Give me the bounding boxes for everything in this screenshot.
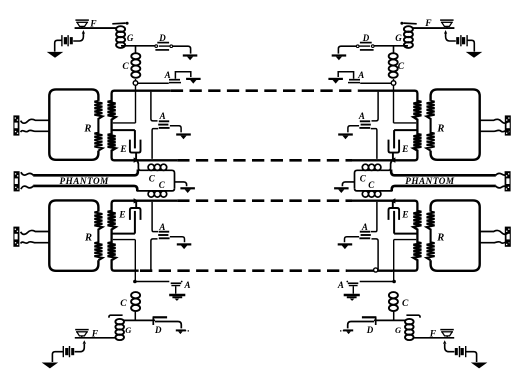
ground arrow at key A mid (right) bbox=[338, 135, 353, 140]
wire node to key A (bottom left) bbox=[136, 281, 169, 283]
wire G to receiver (bottom right) bbox=[413, 337, 454, 339]
phantom wire lower (right) bbox=[392, 186, 496, 191]
svg-text:R: R bbox=[84, 233, 92, 244]
key A (top left) bbox=[169, 72, 191, 83]
jack wires (bottom right) bbox=[480, 231, 508, 244]
svg-text:A: A bbox=[184, 280, 191, 290]
wire line3-winding-line4 (bottom left) bbox=[108, 201, 178, 271]
wire line4 to key A mid (bottom left) bbox=[151, 239, 158, 270]
dashed line conductor 4 bbox=[140, 269, 347, 272]
condenser C (bottom left) bbox=[131, 292, 140, 311]
jack (bottom right) bbox=[505, 227, 511, 247]
phantom jack (right) bbox=[505, 171, 511, 191]
key A (top right) bbox=[338, 72, 360, 83]
ground (key A bottom right) bbox=[344, 295, 360, 301]
key contact pad (bottom right) bbox=[406, 315, 420, 318]
svg-text:E: E bbox=[401, 211, 408, 221]
key A mid (right) bbox=[359, 121, 370, 128]
phantom ground tap wire (left) bbox=[175, 182, 187, 186]
dashed line conductor 3 bbox=[177, 199, 352, 202]
condenser C (top right) bbox=[389, 53, 398, 78]
svg-text:D: D bbox=[154, 325, 162, 335]
svg-text:C: C bbox=[122, 62, 129, 72]
winding tap to condenser E (top right) bbox=[394, 130, 417, 148]
wire key A mid to line2 (left) bbox=[152, 129, 158, 159]
svg-text:C: C bbox=[360, 173, 367, 183]
drop winding on box (top right) bbox=[427, 101, 435, 151]
svg-text:A: A bbox=[158, 222, 165, 232]
phantom wire upper (left) bbox=[33, 170, 138, 176]
receiver F (bottom right) bbox=[440, 330, 454, 338]
wire battery to line with arrow (top left) bbox=[73, 30, 85, 41]
ground (key A bottom left) bbox=[169, 295, 185, 301]
wire D to ground (top right) bbox=[338, 46, 356, 53]
ground wire at key A mid (bottom right) bbox=[345, 237, 360, 243]
svg-text:F: F bbox=[91, 330, 99, 340]
key A (bottom left) bbox=[171, 281, 183, 294]
wire key A mid to line3 (bottom right) bbox=[371, 202, 377, 232]
branch dot (bottom right) bbox=[392, 280, 396, 284]
impedance coil G (top left) bbox=[116, 26, 125, 48]
wire C to junction (bottom left) bbox=[134, 312, 136, 321]
svg-text:E: E bbox=[119, 145, 126, 155]
key contact pad (bottom left) bbox=[109, 315, 123, 318]
svg-text:A: A bbox=[358, 111, 365, 121]
ground wire at key A mid (bottom left) bbox=[170, 237, 185, 243]
wire receiver line (top right) bbox=[413, 27, 455, 29]
ground arrow at key A mid (left) bbox=[176, 135, 191, 140]
ground arrow at D (top right) bbox=[332, 56, 347, 61]
battery (top right) bbox=[456, 35, 467, 46]
wire key A mid to line2 (right) bbox=[371, 129, 377, 159]
wire line1-winding-line2 (top left) bbox=[108, 91, 178, 161]
svg-text:A: A bbox=[357, 70, 364, 80]
svg-text:C: C bbox=[398, 62, 405, 72]
key A (bottom right) bbox=[346, 281, 358, 294]
ground arrow (phantom right) bbox=[334, 188, 349, 193]
jack (top right) bbox=[505, 115, 511, 135]
svg-text:D: D bbox=[366, 325, 374, 335]
wire battery to ground (bottom right) bbox=[466, 352, 477, 362]
wire battery to ground (top left) bbox=[55, 40, 62, 51]
junction mark (pair1 phantom tap right) bbox=[390, 157, 396, 162]
phantom ground tap wire (right) bbox=[342, 182, 354, 186]
ground (top right battery) bbox=[466, 52, 483, 58]
svg-text:G: G bbox=[127, 33, 134, 43]
repeating coil box (bottom right) bbox=[431, 200, 480, 270]
condenser C (bottom right) bbox=[389, 292, 398, 311]
wire battery to ground (bottom left) bbox=[52, 352, 63, 362]
ground arrow at D (bottom left) bbox=[176, 330, 189, 334]
svg-text:A: A bbox=[361, 222, 368, 232]
drop winding on box (top left) bbox=[94, 101, 102, 151]
key D (bottom right) bbox=[362, 317, 377, 325]
svg-text:F: F bbox=[429, 330, 437, 340]
repeating coil box (bottom left) bbox=[49, 200, 98, 270]
svg-text:C: C bbox=[159, 180, 166, 190]
svg-text:F: F bbox=[424, 19, 432, 29]
key contact pad (top left) bbox=[112, 22, 128, 25]
svg-text:D: D bbox=[362, 33, 370, 43]
jack (top left) bbox=[13, 115, 19, 135]
svg-text:R: R bbox=[436, 233, 444, 244]
wire line4 to key A mid (bottom right) bbox=[372, 239, 379, 270]
impedance coil G (top right) bbox=[404, 26, 413, 48]
phantom jack hook lower (left) bbox=[21, 186, 34, 189]
phantom jack hook lower (right) bbox=[496, 186, 509, 189]
ground (top left battery) bbox=[47, 52, 64, 58]
svg-text:R: R bbox=[83, 124, 91, 135]
node on line 4 (right) bbox=[374, 268, 378, 272]
dashed line conductor 2 bbox=[177, 159, 352, 162]
impedance coil G (bottom left) bbox=[115, 319, 124, 340]
wire line to battery with arrow (bottom right) bbox=[443, 340, 454, 352]
wire battery to line with arrow (top right) bbox=[444, 30, 456, 41]
node (top left) bbox=[133, 81, 138, 86]
condenser E (top left) bbox=[130, 140, 141, 160]
ground wire at key A mid (right) bbox=[348, 126, 359, 133]
svg-text:A: A bbox=[164, 70, 171, 80]
key A mid (bottom right) bbox=[359, 232, 370, 239]
wire line4 solid segment (right) bbox=[347, 270, 392, 272]
key A mid (left) bbox=[158, 121, 169, 128]
wire node to key A (top right) bbox=[360, 82, 391, 84]
wire D to ground (top left) bbox=[173, 46, 191, 53]
ground arrow (phantom left) bbox=[180, 188, 195, 193]
ground arrow at key A (top right) bbox=[328, 79, 343, 84]
wire G-C link (top left) bbox=[135, 46, 137, 53]
drop winding on box (bottom right) bbox=[427, 212, 435, 261]
svg-text:F: F bbox=[89, 19, 97, 29]
wire node to key A (bottom right) bbox=[360, 281, 393, 283]
wire D to ground (bottom right) bbox=[348, 322, 374, 329]
phantom jack (left) bbox=[14, 171, 20, 191]
svg-text:G: G bbox=[395, 325, 402, 335]
svg-text:C: C bbox=[368, 180, 375, 190]
drop winding on box (bottom left) bbox=[94, 212, 102, 261]
wire C to node (top left) bbox=[135, 79, 137, 81]
wire line3-winding-line4 (bottom right) bbox=[352, 201, 422, 271]
jack wires (top right) bbox=[480, 119, 508, 132]
winding tap to condenser E (top left) bbox=[112, 130, 135, 148]
phantom coil 1 (right) bbox=[355, 164, 381, 173]
wire G to D (top left) bbox=[121, 45, 155, 47]
key A mid (bottom left) bbox=[158, 232, 169, 239]
phantom coil joining wire (left) bbox=[174, 173, 176, 188]
junction mark (pair2 phantom tap right) bbox=[390, 198, 396, 203]
condenser E (bottom left) bbox=[130, 201, 141, 234]
svg-text:C: C bbox=[149, 173, 156, 183]
wire junction to phantom coil 1 (right) bbox=[381, 161, 392, 170]
branch dot (bottom left) bbox=[133, 280, 137, 284]
wire G-C link (top right) bbox=[393, 46, 395, 53]
ground arrow at key A (top left) bbox=[186, 79, 201, 84]
condenser E (bottom right) bbox=[389, 201, 400, 234]
svg-text:R: R bbox=[436, 124, 444, 135]
impedance coil G (bottom right) bbox=[405, 319, 414, 340]
svg-text:PHANTOM: PHANTOM bbox=[60, 176, 110, 186]
svg-text:C: C bbox=[120, 299, 127, 309]
wire battery to ground (top right) bbox=[467, 40, 474, 51]
svg-text:E: E bbox=[401, 145, 408, 155]
ground arrow at key A mid (bottom right) bbox=[338, 244, 353, 249]
jack wires (bottom left) bbox=[21, 231, 49, 244]
jack wires (top left) bbox=[21, 119, 49, 132]
phantom wire upper (right) bbox=[391, 170, 496, 176]
ground arrow at key A mid (bottom left) bbox=[177, 244, 192, 249]
junction mark (pair1 phantom tap left) bbox=[134, 157, 140, 162]
wire G to receiver (bottom left) bbox=[75, 337, 116, 339]
wire junction line (bottom left) bbox=[124, 319, 155, 321]
phantom coil joining wire (right) bbox=[354, 173, 356, 188]
phantom wire lower (left) bbox=[33, 186, 137, 191]
wire D to ground (bottom left) bbox=[155, 322, 181, 329]
wire line1-winding-line2 (top right) bbox=[352, 91, 422, 161]
wire line to battery with arrow (bottom left) bbox=[75, 340, 86, 352]
wire line1 to key A mid (right) bbox=[372, 92, 379, 121]
ground (bottom left battery) bbox=[42, 363, 59, 369]
winding tap to condenser E (bottom left) bbox=[112, 233, 135, 235]
svg-text:PHANTOM: PHANTOM bbox=[405, 176, 455, 186]
battery (bottom right) bbox=[455, 346, 466, 357]
svg-text:A: A bbox=[337, 280, 344, 290]
svg-text:E: E bbox=[118, 211, 125, 221]
wire G to D (top right) bbox=[374, 45, 408, 47]
receiver F (bottom left) bbox=[75, 330, 89, 338]
phantom coil 2 (left) bbox=[137, 188, 175, 197]
key contact pad (top right) bbox=[400, 22, 416, 25]
key D (top right) bbox=[356, 43, 374, 50]
ground arrow at D (top left) bbox=[183, 56, 198, 61]
svg-text:A: A bbox=[159, 111, 166, 121]
ground wire at key A mid (left) bbox=[170, 126, 181, 133]
repeating coil box (top left) bbox=[49, 89, 98, 159]
svg-text:D: D bbox=[158, 33, 166, 43]
wire C to node (top right) bbox=[393, 79, 395, 81]
key D (top left) bbox=[155, 43, 173, 50]
ground (bottom right battery) bbox=[471, 363, 488, 369]
wire line1 to key A mid (left) bbox=[151, 92, 158, 121]
phantom jack hook upper (left) bbox=[21, 172, 34, 175]
battery (bottom left) bbox=[63, 346, 74, 357]
phantom coil 2 (right) bbox=[355, 188, 393, 197]
condenser C (top left) bbox=[131, 53, 140, 78]
svg-text:G: G bbox=[125, 325, 132, 335]
phantom jack hook upper (right) bbox=[496, 172, 509, 175]
node (top right) bbox=[391, 81, 396, 86]
repeating coil box (top right) bbox=[431, 89, 480, 159]
wire junction to phantom coil 1 (left) bbox=[137, 161, 148, 170]
phantom coil 1 (left) bbox=[148, 164, 174, 173]
ground arrow at D (bottom right) bbox=[340, 330, 353, 334]
svg-text:G: G bbox=[395, 33, 402, 43]
wire winding tap to node (bottom left) bbox=[113, 240, 136, 282]
receiver F (top left) bbox=[75, 20, 89, 28]
key D (bottom left) bbox=[153, 317, 168, 325]
wire key A mid to line3 (bottom left) bbox=[152, 202, 158, 232]
winding tap to condenser E (bottom right) bbox=[394, 233, 417, 235]
jack (bottom left) bbox=[13, 227, 19, 247]
condenser E (top right) bbox=[389, 140, 400, 160]
wire node to winding tap (top left) bbox=[113, 85, 136, 123]
receiver F (top right) bbox=[440, 20, 454, 28]
wire node to winding tap (top right) bbox=[394, 85, 417, 123]
wire C to junction (bottom right) bbox=[393, 312, 395, 321]
svg-text:C: C bbox=[402, 299, 409, 309]
battery (top left) bbox=[62, 35, 73, 46]
wire node to key A (top left) bbox=[138, 82, 169, 84]
wire junction line (bottom right) bbox=[374, 319, 405, 321]
wire receiver line (top left) bbox=[75, 27, 117, 29]
junction mark (pair2 phantom tap left) bbox=[134, 198, 140, 203]
dashed line conductor 1 bbox=[171, 89, 359, 92]
wire winding tap to node (bottom right) bbox=[394, 240, 417, 282]
